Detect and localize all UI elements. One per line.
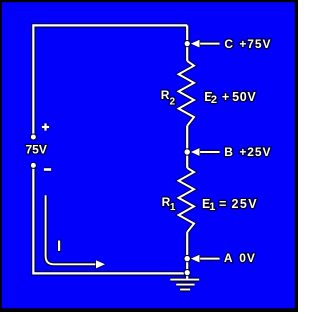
svg-text:0V: 0V [239, 251, 255, 265]
svg-text:R: R [161, 88, 170, 102]
svg-text:1: 1 [170, 202, 176, 213]
svg-text:+25V: +25V [239, 145, 271, 159]
svg-text:C: C [224, 37, 233, 51]
svg-text:B: B [224, 145, 233, 159]
svg-text:75V: 75V [26, 142, 47, 156]
svg-text:2: 2 [170, 96, 176, 107]
svg-text:+: + [222, 90, 229, 104]
svg-text:50V: 50V [232, 90, 256, 104]
svg-text:2: 2 [211, 94, 217, 106]
svg-text:A: A [224, 251, 233, 265]
svg-text:25V: 25V [232, 197, 259, 211]
svg-text:+75V: +75V [239, 37, 271, 51]
svg-text:=: = [219, 197, 226, 211]
svg-text:1: 1 [209, 201, 215, 213]
